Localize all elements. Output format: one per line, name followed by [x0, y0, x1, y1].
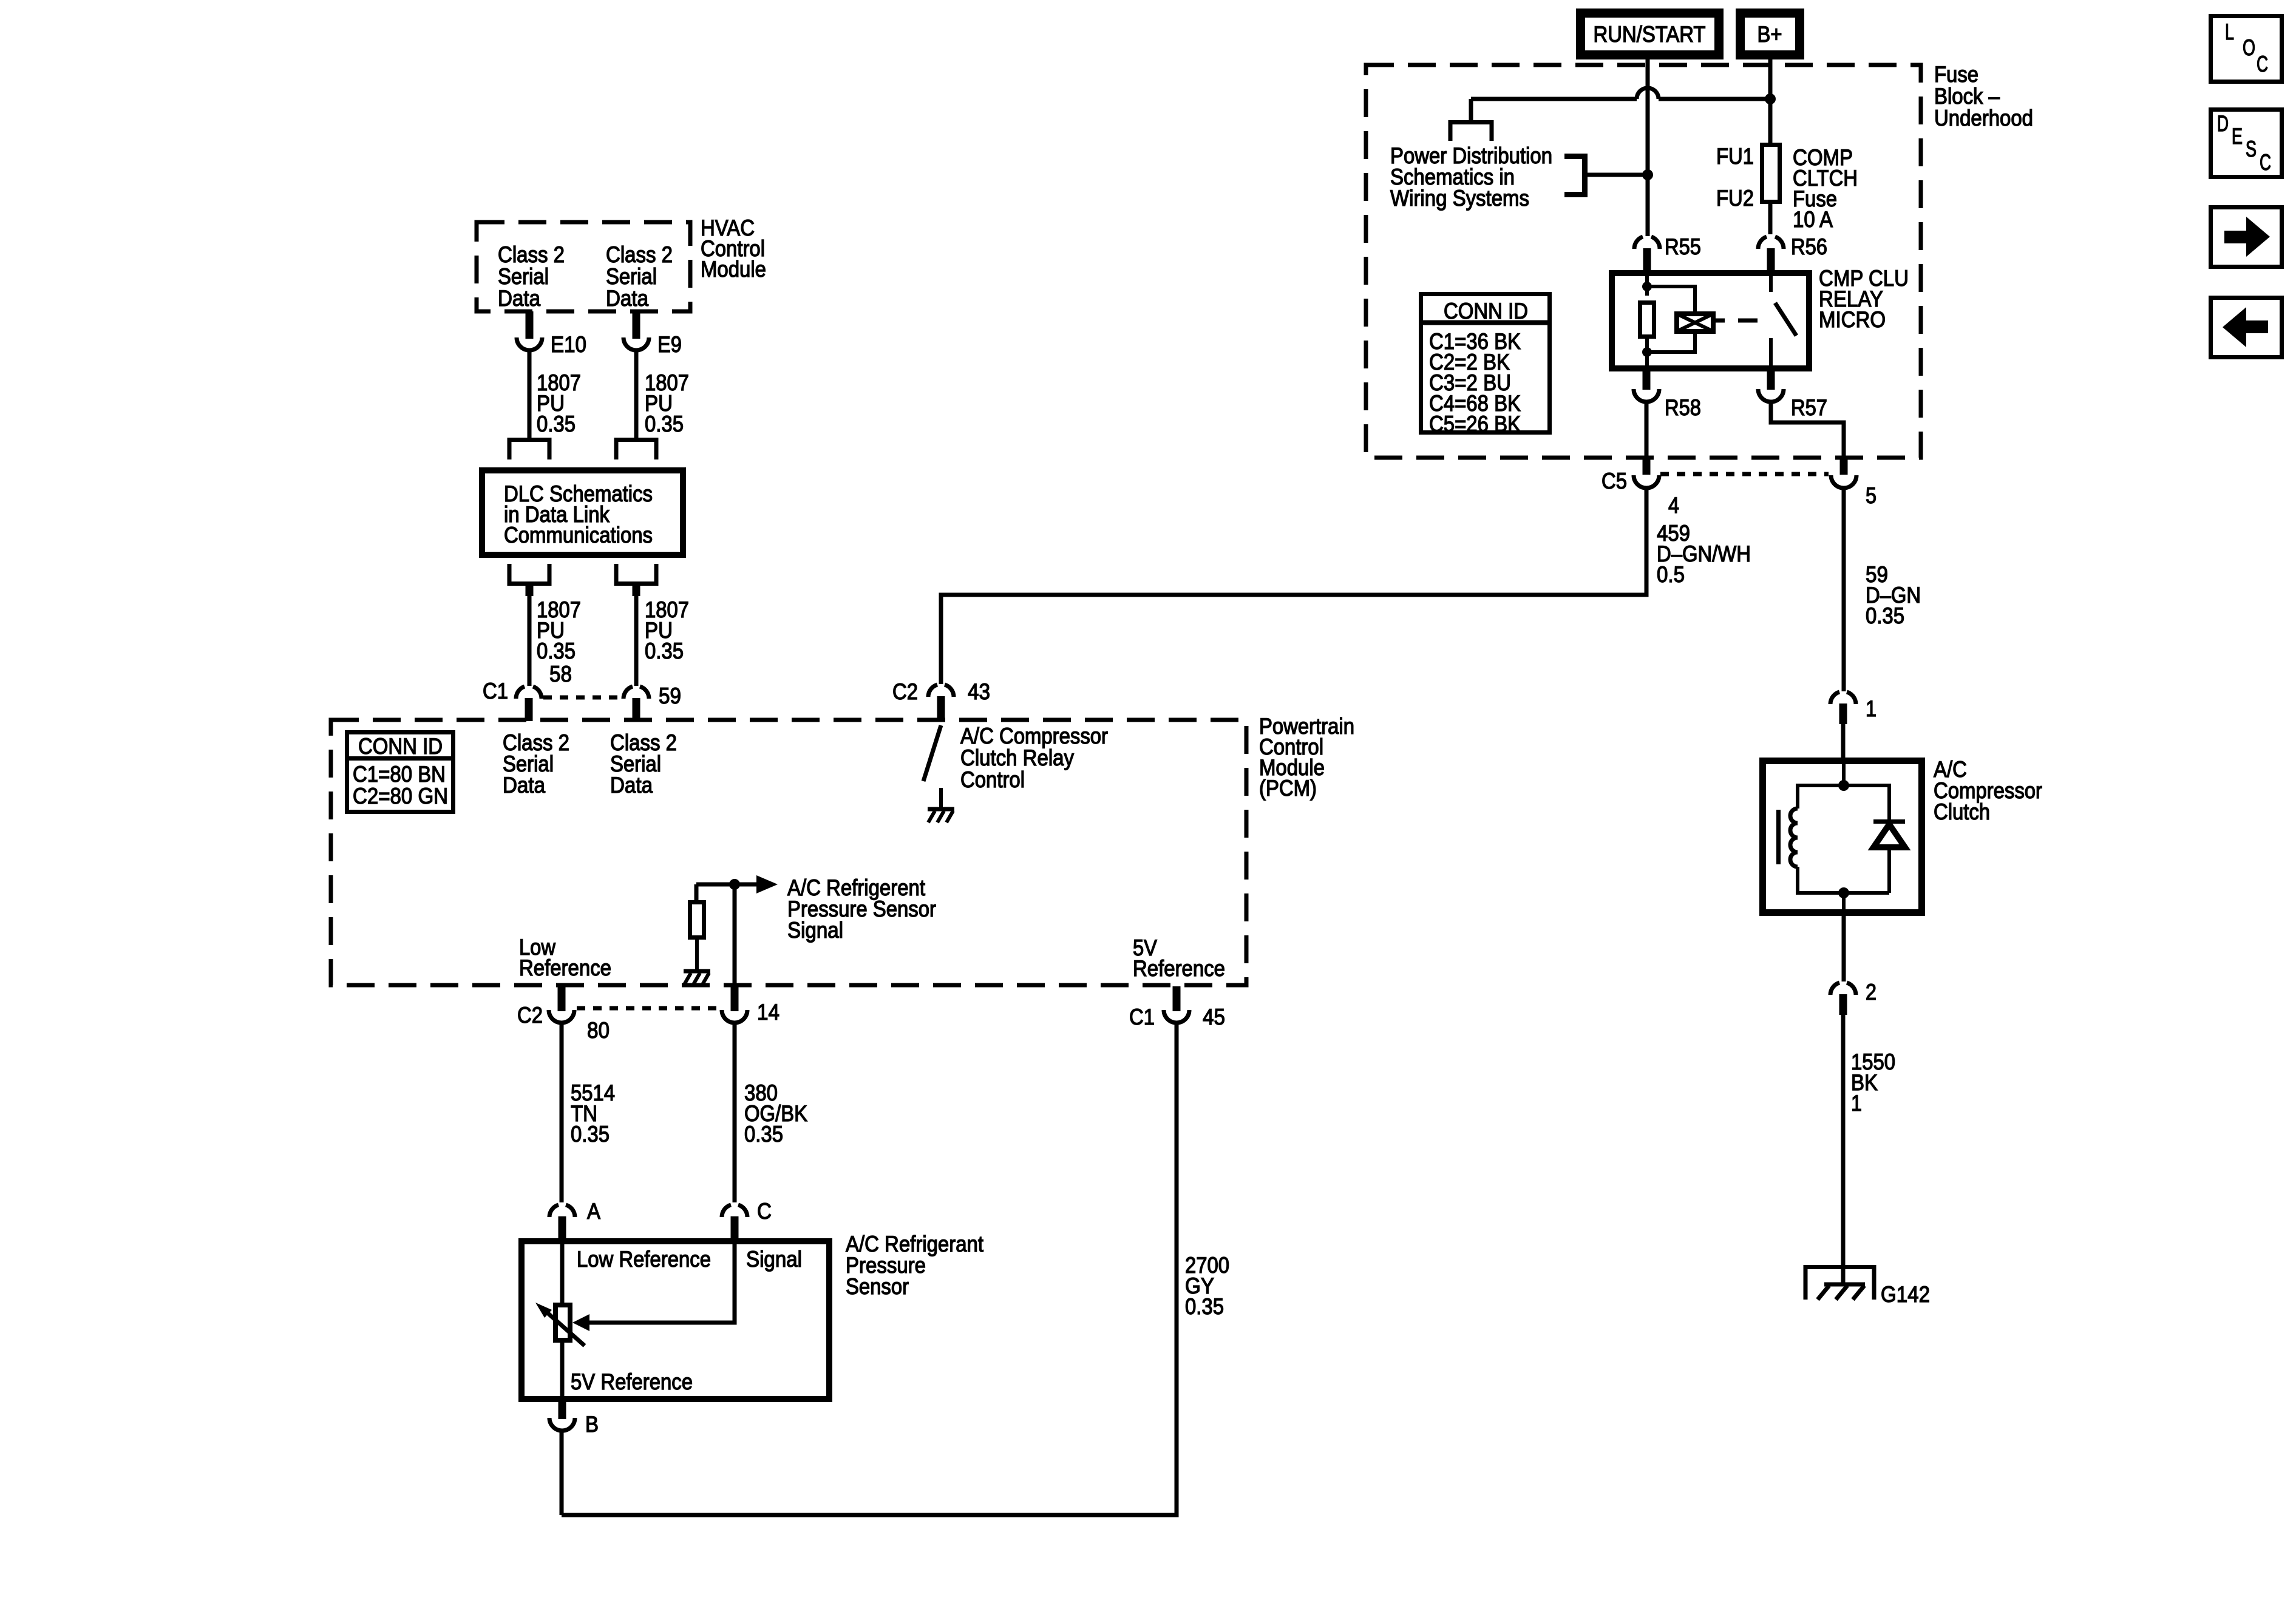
- svg-text:Communications: Communications: [504, 523, 653, 547]
- clutch coil branch: [1798, 785, 1844, 808]
- dotted connector row 58-59: [543, 696, 622, 700]
- svg-text:C1: C1: [1129, 1005, 1155, 1029]
- svg-text:Signal: Signal: [787, 918, 843, 943]
- wire 1807 PU DLC to pin 59: [634, 596, 639, 686]
- diode (clutch suppression): [1873, 819, 1905, 824]
- wire signal inside sensor: [588, 1241, 735, 1323]
- svg-text:Class 2: Class 2: [498, 242, 565, 267]
- A/C Refrigerant Pressure Sensor box: [521, 1241, 829, 1399]
- svg-text:4: 4: [1668, 493, 1679, 518]
- svg-text:Clutch Relay: Clutch Relay: [960, 745, 1074, 770]
- connector C1 pin 45 (stub + cup): [1173, 986, 1181, 1011]
- svg-text:0.35: 0.35: [537, 412, 576, 436]
- svg-text:5: 5: [1866, 483, 1877, 508]
- svg-text:0.35: 0.35: [1866, 603, 1904, 628]
- svg-text:C5=26 BK: C5=26 BK: [1429, 412, 1521, 436]
- switch: A/C compressor clutch relay control driver: [923, 725, 941, 781]
- terminal bracket into DLC (left): [509, 440, 549, 460]
- svg-text:CONN ID: CONN ID: [1444, 299, 1528, 324]
- terminal bracket into DLC (right): [616, 440, 656, 460]
- wire signal branch: [696, 884, 756, 900]
- svg-text:Reference: Reference: [519, 955, 611, 980]
- svg-text:E: E: [2232, 124, 2243, 149]
- svg-text:O: O: [2243, 35, 2255, 60]
- svg-text:Data: Data: [498, 286, 540, 311]
- svg-text:CONN ID: CONN ID: [358, 734, 443, 759]
- svg-text:R55: R55: [1665, 234, 1701, 259]
- wire signal to pin 14: [733, 884, 737, 985]
- connector R58 (stub + cup): [1643, 368, 1651, 390]
- connector C5 pin 4 (cup): [1634, 475, 1659, 488]
- nav icon LOC: [2211, 16, 2282, 82]
- svg-text:Class 2: Class 2: [606, 242, 673, 267]
- wire 1807 PU from E9 to DLC: [634, 350, 639, 438]
- connector pin B (stub + cup): [559, 1402, 566, 1419]
- connector pin C (dome + stub): [722, 1205, 747, 1217]
- svg-text:Data: Data: [610, 773, 653, 798]
- wire 459 D-GN/WH from C5-4 to PCM 43: [941, 488, 1646, 684]
- Powertrain Control Module dashed box: [331, 720, 1246, 985]
- connector E9 (stub + cup): [633, 311, 640, 339]
- resistor (relay): [1640, 303, 1654, 337]
- nav icon DESC: [2211, 110, 2282, 177]
- node: run/start distribution junction: [1642, 169, 1653, 180]
- svg-text:1: 1: [1851, 1091, 1862, 1116]
- fuse FU1/FU2 COMP CLTCH 10A: [1762, 145, 1780, 202]
- dotted connector row C5: [1660, 472, 1829, 476]
- relay switch: [1769, 270, 1773, 292]
- svg-text:RUN/START: RUN/START: [1594, 22, 1706, 47]
- wire 2700 GY: [562, 1023, 1177, 1515]
- terminal bracket out of DLC (right): [616, 564, 656, 584]
- off-page terminal (power distribution): [1450, 123, 1492, 141]
- wire low reference inside sensor: [560, 1241, 565, 1305]
- wire 1550 BK to ground: [1841, 1014, 1846, 1284]
- svg-text:C2: C2: [517, 1003, 543, 1028]
- wire clutch to pin 2: [1842, 893, 1846, 916]
- svg-text:Serial: Serial: [606, 264, 657, 289]
- svg-text:R56: R56: [1791, 234, 1827, 259]
- svg-text:MICRO: MICRO: [1819, 307, 1886, 332]
- svg-text:Sensor: Sensor: [846, 1274, 909, 1299]
- svg-text:C: C: [757, 1199, 772, 1224]
- svg-text:0.35: 0.35: [571, 1122, 610, 1147]
- wire top distribution with hop over RUN/START: [1471, 88, 1770, 99]
- svg-text:45: 45: [1203, 1005, 1225, 1029]
- relay coil branch wire: [1645, 270, 1649, 296]
- ground (signal pull resistor): [684, 969, 710, 974]
- svg-text:80: 80: [587, 1018, 610, 1043]
- svg-text:Fuse: Fuse: [1934, 62, 1978, 87]
- svg-text:S: S: [2246, 137, 2257, 161]
- svg-text:E9: E9: [657, 332, 682, 357]
- svg-text:Data: Data: [606, 286, 648, 311]
- resistor (signal pull): [690, 903, 704, 938]
- svg-text:FU1: FU1: [1716, 144, 1754, 169]
- svg-text:C: C: [2260, 150, 2271, 175]
- svg-text:58: 58: [549, 662, 572, 686]
- connector C2 pin 80 (stub + cup): [558, 986, 566, 1011]
- svg-text:0.35: 0.35: [1185, 1294, 1224, 1319]
- svg-text:C1=80 BN: C1=80 BN: [353, 762, 446, 787]
- dotted connector row 80-14: [577, 1006, 719, 1011]
- svg-text:Wiring Systems: Wiring Systems: [1390, 186, 1529, 211]
- svg-text:R57: R57: [1791, 395, 1827, 420]
- svg-text:C2=80 GN: C2=80 GN: [353, 784, 448, 808]
- svg-text:0.35: 0.35: [744, 1122, 783, 1147]
- svg-text:B+: B+: [1758, 22, 1782, 47]
- connector E10 (stub + cup): [526, 311, 534, 339]
- connector pin 5 (cup): [1831, 475, 1856, 488]
- svg-text:5V Reference: 5V Reference: [571, 1369, 693, 1394]
- svg-text:Data: Data: [503, 773, 545, 798]
- Fuse Block Underhood dashed box: [1366, 65, 1921, 458]
- svg-text:C5: C5: [1601, 469, 1627, 493]
- connector R57 (stub + cup): [1767, 368, 1775, 390]
- svg-text:0.35: 0.35: [537, 639, 576, 663]
- svg-text:1: 1: [1866, 696, 1877, 721]
- wire 59 D-GN: [1842, 488, 1846, 691]
- svg-text:43: 43: [968, 679, 990, 704]
- wire R58 to C5-4: [1645, 402, 1649, 459]
- coil (clutch solenoid): [1790, 808, 1798, 867]
- connector pin 59 (dome + stub): [623, 686, 649, 699]
- wire R57 to pin 5: [1771, 402, 1844, 459]
- nav icon arrow right: [2211, 208, 2282, 267]
- off-page bracket (to run/start wire): [1564, 157, 1585, 195]
- svg-text:B: B: [585, 1412, 599, 1437]
- wire B to 2700 GY return: [560, 1431, 564, 1515]
- svg-text:Signal: Signal: [746, 1247, 802, 1272]
- svg-text:14: 14: [757, 1000, 779, 1025]
- svg-text:G142: G142: [1881, 1282, 1930, 1307]
- nav icon arrow left: [2211, 298, 2282, 358]
- wire B+ feed: [1768, 59, 1773, 234]
- svg-text:Reference: Reference: [1133, 956, 1225, 981]
- ground (relay control driver): [928, 807, 954, 812]
- diode branch: [1844, 785, 1889, 819]
- svg-text:D: D: [2217, 111, 2229, 136]
- node: relay coil top: [1642, 282, 1652, 291]
- svg-text:R58: R58: [1665, 395, 1701, 420]
- svg-text:E10: E10: [551, 332, 586, 357]
- svg-text:(PCM): (PCM): [1259, 776, 1317, 801]
- svg-text:0.35: 0.35: [645, 639, 684, 663]
- coil core bar: [1776, 810, 1781, 864]
- clutch feed wire: [1842, 761, 1846, 785]
- ground G142: [1805, 1267, 1874, 1300]
- svg-text:C2: C2: [892, 679, 918, 704]
- svg-text:FU2: FU2: [1716, 186, 1754, 211]
- HVAC Control Module dashed box: [477, 222, 690, 311]
- arrow signal to wiper: [572, 1314, 589, 1331]
- CONN ID table (PCM): [347, 733, 453, 812]
- connector pin 2 (dome + stub): [1830, 983, 1856, 995]
- svg-text:Low Reference: Low Reference: [577, 1247, 711, 1272]
- svg-text:Module: Module: [701, 257, 766, 282]
- svg-text:L: L: [2225, 19, 2234, 44]
- svg-text:Clutch: Clutch: [1934, 799, 1990, 824]
- wire pin 1 to clutch: [1841, 724, 1846, 761]
- connector R56 (dome + stub): [1758, 237, 1784, 249]
- arrow: signal to A/C refrigerent pressure sensor signal: [756, 875, 778, 893]
- svg-text:0.35: 0.35: [645, 412, 684, 436]
- svg-text:59: 59: [659, 683, 681, 708]
- CMP CLU RELAY MICRO box: [1612, 273, 1809, 368]
- svg-text:C1: C1: [483, 679, 508, 703]
- wire 380 OG/BK: [733, 1023, 737, 1202]
- svg-text:Serial: Serial: [498, 264, 549, 289]
- relay actuation dashed link: [1716, 319, 1758, 323]
- svg-text:A: A: [587, 1199, 600, 1224]
- node: B+ junction: [1765, 93, 1776, 104]
- svg-text:Control: Control: [960, 767, 1025, 792]
- potentiometer (pressure sensor element): [555, 1305, 570, 1340]
- svg-text:10 A: 10 A: [1793, 207, 1833, 232]
- A/C Compressor Clutch box: [1763, 761, 1922, 913]
- wire 1807 PU DLC to C1-58: [528, 596, 532, 686]
- relay coil element (box with X): [1647, 286, 1695, 311]
- node: clutch bottom junction: [1838, 887, 1849, 898]
- wire 5514 TN: [560, 1023, 564, 1202]
- CONN ID table (fuse block): [1421, 294, 1550, 433]
- connector C1 pin 58 (dome + stub): [516, 686, 542, 699]
- node: pressure sensor signal junction: [729, 879, 740, 890]
- connector R55 (dome + stub): [1634, 237, 1660, 249]
- svg-text:Block –: Block –: [1934, 84, 2000, 109]
- wire drop to off-page terminal: [1469, 99, 1473, 120]
- connector pin A (dome + stub): [549, 1205, 575, 1217]
- svg-text:C: C: [2257, 52, 2268, 76]
- terminal bracket out of DLC (left): [509, 564, 549, 584]
- connector C2 pin 43 (dome + stub): [928, 685, 954, 697]
- power feed box RUN/START: [1581, 13, 1719, 55]
- wire bracket to junction: [1587, 173, 1648, 177]
- node: clutch top junction: [1838, 780, 1849, 791]
- svg-text:0.5: 0.5: [1657, 562, 1685, 587]
- DLC Schematics box: [482, 470, 683, 555]
- power feed box B+: [1741, 13, 1800, 55]
- svg-text:A/C Compressor: A/C Compressor: [960, 724, 1108, 748]
- connector pin 14 (stub + cup): [731, 986, 739, 1011]
- svg-text:Underhood: Underhood: [1934, 106, 2033, 131]
- connector pin 1 (dome + stub): [1830, 692, 1856, 704]
- node: relay coil bottom: [1642, 347, 1652, 357]
- svg-text:2: 2: [1866, 980, 1877, 1005]
- wire 1807 PU from E10 to DLC: [528, 350, 532, 438]
- wire RUN/START feed: [1646, 59, 1650, 236]
